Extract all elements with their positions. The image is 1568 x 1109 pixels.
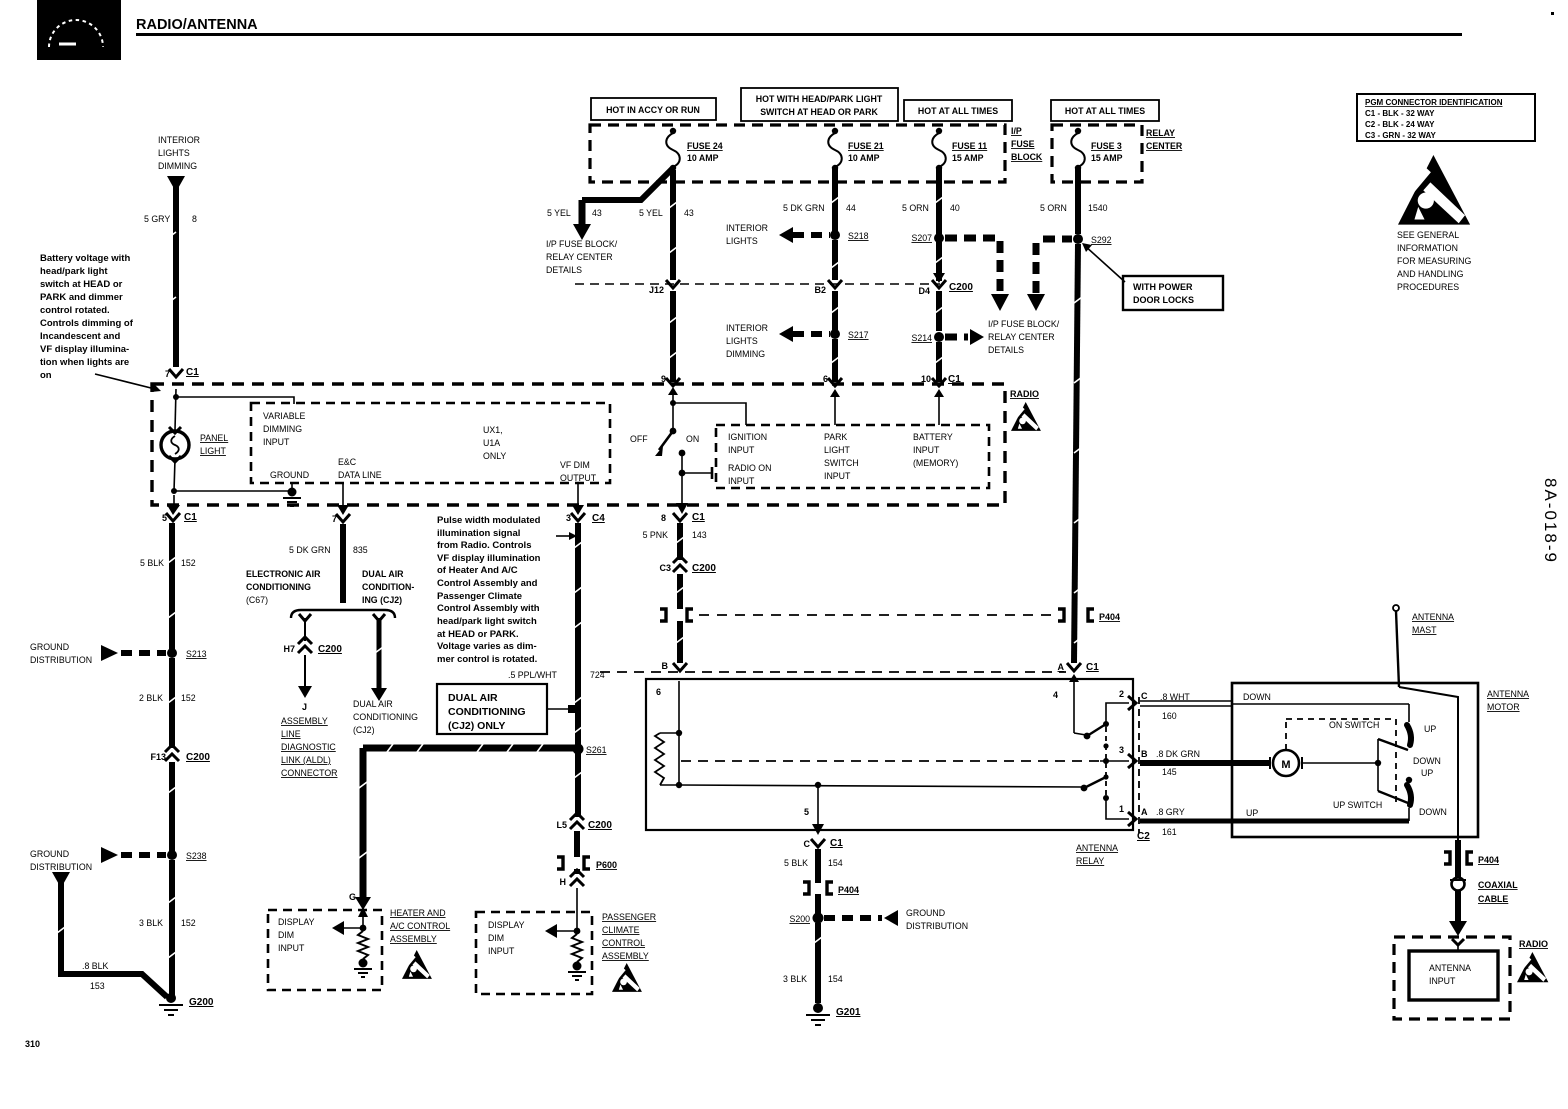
connector P404 right <box>1058 609 1120 622</box>
dual air branch <box>353 614 418 735</box>
svg-text:15 AMP: 15 AMP <box>952 153 984 163</box>
svg-text:INPUT: INPUT <box>488 946 515 956</box>
svg-text:(CJ2): (CJ2) <box>353 725 375 735</box>
svg-text:FUSE: FUSE <box>1011 139 1035 149</box>
svg-text:DUAL AIR: DUAL AIR <box>353 699 393 709</box>
svg-text:835: 835 <box>353 545 368 555</box>
svg-text:3 BLK: 3 BLK <box>139 918 163 928</box>
splice S213 <box>30 642 207 665</box>
svg-text:RADIO ON: RADIO ON <box>728 463 772 473</box>
panel light circuit inside radio <box>173 389 294 430</box>
relay coil contact line (pin3) <box>681 760 1129 762</box>
svg-text:A: A <box>1141 807 1148 817</box>
svg-text:INPUT: INPUT <box>913 445 940 455</box>
svg-text:at HEAD or PARK.: at HEAD or PARK. <box>437 629 519 640</box>
svg-text:(MEMORY): (MEMORY) <box>913 458 958 468</box>
svg-text:LINK (ALDL): LINK (ALDL) <box>281 755 331 765</box>
svg-text:C3: C3 <box>659 563 671 573</box>
svg-text:CENTER: CENTER <box>1146 141 1183 151</box>
svg-text:OFF: OFF <box>630 434 648 444</box>
svg-text:INTERIOR: INTERIOR <box>158 135 200 145</box>
wire 1540 ORN <box>1040 168 1108 234</box>
wire 152 BLK <box>140 523 196 649</box>
svg-text:ANTENNA: ANTENNA <box>1487 689 1529 699</box>
svg-text:ELECTRONIC AIR: ELECTRONIC AIR <box>246 569 321 579</box>
svg-text:SWITCH: SWITCH <box>824 458 859 468</box>
svg-text:FUSE 3: FUSE 3 <box>1091 141 1122 151</box>
svg-text:A: A <box>1058 662 1065 672</box>
MIDCOLS <box>246 512 1120 994</box>
svg-text:VF display illumina-: VF display illumina- <box>40 344 129 355</box>
svg-text:Passenger Climate: Passenger Climate <box>437 591 522 602</box>
svg-text:4: 4 <box>1053 690 1058 700</box>
svg-text:C200: C200 <box>318 644 342 655</box>
wire 154 BLK <box>784 849 843 883</box>
relay coil <box>655 681 682 788</box>
svg-text:152: 152 <box>181 558 196 568</box>
svg-text:ON: ON <box>686 434 699 444</box>
motor to switch common <box>1303 739 1381 791</box>
terminal H <box>560 869 585 928</box>
coax path from mast <box>1399 687 1458 848</box>
svg-text:44: 44 <box>846 203 856 213</box>
svg-text:control rotated.: control rotated. <box>40 305 110 316</box>
svg-text:GROUND: GROUND <box>270 470 309 480</box>
svg-text:INPUT: INPUT <box>1429 976 1456 986</box>
wire 1540 down to antenna relay <box>1074 244 1078 663</box>
wire 43 below J12 <box>670 291 676 382</box>
heater display dim input box <box>268 907 382 990</box>
svg-text:RELAY CENTER: RELAY CENTER <box>988 332 1055 342</box>
svg-text:.8 GRY: .8 GRY <box>1156 807 1185 817</box>
svg-text:PARK and dimmer: PARK and dimmer <box>40 292 123 303</box>
battery input arrow <box>934 389 944 425</box>
relay pin5 branch <box>804 782 824 835</box>
interior lights dimming feed <box>158 135 200 192</box>
svg-text:CONDITIONING: CONDITIONING <box>448 706 526 718</box>
svg-text:head/park light: head/park light <box>40 266 108 277</box>
svg-text:SWITCH AT HEAD OR PARK: SWITCH AT HEAD OR PARK <box>760 107 878 117</box>
svg-text:ONLY: ONLY <box>483 451 506 461</box>
splice S207 <box>911 233 1009 311</box>
svg-text:Voltage varies as dim-: Voltage varies as dim- <box>437 641 537 652</box>
relay lower switch <box>679 777 1129 819</box>
svg-text:INFORMATION: INFORMATION <box>1397 243 1458 253</box>
svg-text:8: 8 <box>661 513 666 523</box>
svg-text:of Heater And A/C: of Heater And A/C <box>437 565 518 576</box>
top right speck <box>1551 12 1554 15</box>
svg-text:5 BLK: 5 BLK <box>784 858 808 868</box>
terminal 7 C1 <box>165 367 199 379</box>
splice S200 <box>789 894 968 931</box>
svg-text:15 AMP: 15 AMP <box>1091 153 1123 163</box>
svg-text:C2 - BLK - 24 WAY: C2 - BLK - 24 WAY <box>1365 120 1435 129</box>
svg-text:C1: C1 <box>184 512 197 523</box>
svg-text:CLIMATE: CLIMATE <box>602 925 640 935</box>
svg-text:S292: S292 <box>1091 235 1112 245</box>
svg-text:UX1,: UX1, <box>483 425 503 435</box>
svg-text:G: G <box>349 892 356 902</box>
svg-text:INPUT: INPUT <box>278 943 305 953</box>
svg-text:from Radio. Controls: from Radio. Controls <box>437 540 531 551</box>
connector F13 C200 <box>150 745 210 763</box>
svg-text:DOOR LOCKS: DOOR LOCKS <box>1133 295 1194 305</box>
passenger climate control assembly label <box>602 912 656 992</box>
svg-text:C200: C200 <box>692 563 716 574</box>
ground G200 <box>159 993 214 1015</box>
connector P404 left <box>660 609 693 621</box>
passenger display dim input box <box>476 912 592 994</box>
connector L5 C200 <box>556 753 612 831</box>
ESD handling symbol <box>1397 155 1471 292</box>
splice S217 <box>726 323 869 359</box>
svg-text:head/park light switch: head/park light switch <box>437 616 537 627</box>
terminal A C1 relay <box>1058 662 1100 673</box>
svg-text:DUAL AIR: DUAL AIR <box>448 692 498 704</box>
P404 dashed interconnect <box>699 614 1056 616</box>
svg-text:ANTENNA: ANTENNA <box>1429 963 1471 973</box>
wire 40 below D4 <box>936 291 942 331</box>
wire 44 below S217 <box>832 339 838 382</box>
corner logo <box>37 0 121 60</box>
svg-text:CONDITIONING: CONDITIONING <box>353 712 418 722</box>
fuse 11 <box>932 128 987 171</box>
svg-text:VF DIM: VF DIM <box>560 460 590 470</box>
svg-text:CONNECTOR: CONNECTOR <box>281 768 338 778</box>
svg-text:5 PNK: 5 PNK <box>643 530 669 540</box>
wire 40 ORN <box>902 168 960 234</box>
svg-text:M: M <box>1281 759 1290 771</box>
antenna motor box <box>1232 683 1529 837</box>
svg-text:illumination signal: illumination signal <box>437 528 520 539</box>
svg-text:INPUT: INPUT <box>728 445 755 455</box>
svg-text:H: H <box>560 877 567 887</box>
svg-text:VF display illumination: VF display illumination <box>437 553 541 564</box>
svg-text:WITH POWER: WITH POWER <box>1133 282 1193 292</box>
svg-text:LIGHT: LIGHT <box>200 446 227 456</box>
svg-text:A/C CONTROL: A/C CONTROL <box>390 921 450 931</box>
svg-text:VARIABLE: VARIABLE <box>263 411 306 421</box>
svg-text:on: on <box>40 370 52 381</box>
svg-text:DISTRIBUTION: DISTRIBUTION <box>906 921 968 931</box>
antenna relay box <box>646 679 1133 866</box>
svg-text:HOT AT ALL TIMES: HOT AT ALL TIMES <box>1065 106 1145 116</box>
svg-text:S200: S200 <box>789 914 810 924</box>
svg-text:tion when lights are: tion when lights are <box>40 357 129 368</box>
dual air conditioning only box <box>437 684 575 734</box>
svg-text:F13: F13 <box>150 752 166 762</box>
E&C data line arrow <box>337 483 349 515</box>
svg-text:RADIO: RADIO <box>1519 939 1548 949</box>
svg-text:2: 2 <box>1119 689 1124 699</box>
wire 143 PNK <box>677 523 683 560</box>
svg-text:DISTRIBUTION: DISTRIBUTION <box>30 862 92 872</box>
svg-text:DETAILS: DETAILS <box>546 265 582 275</box>
up switch contacts <box>1378 768 1447 821</box>
heater a/c control assembly label <box>390 908 450 979</box>
coax to P404 <box>1444 840 1499 877</box>
svg-text:43: 43 <box>684 208 694 218</box>
splice S218 <box>726 223 869 246</box>
svg-text:ASSEMBLY: ASSEMBLY <box>602 951 649 961</box>
svg-text:G200: G200 <box>189 997 214 1008</box>
relay connector C2 dashed face <box>1137 697 1150 842</box>
svg-text:C2: C2 <box>1137 831 1150 842</box>
panel light ground wire <box>171 459 292 494</box>
svg-text:C200: C200 <box>186 752 210 763</box>
svg-text:UP: UP <box>1421 768 1433 778</box>
wire 152 BLK 3 <box>169 762 175 851</box>
svg-text:LINE: LINE <box>281 729 301 739</box>
terminal J12 <box>649 280 680 295</box>
battery voltage note <box>40 253 161 392</box>
svg-text:CABLE: CABLE <box>1478 894 1508 904</box>
svg-text:PGM CONNECTOR IDENTIFICATION: PGM CONNECTOR IDENTIFICATION <box>1365 98 1503 107</box>
svg-text:6: 6 <box>656 687 661 697</box>
svg-text:5 ORN: 5 ORN <box>1040 203 1067 213</box>
fuse 3 <box>1071 128 1122 171</box>
relay center dashed box <box>1052 125 1183 182</box>
svg-text:DOWN: DOWN <box>1243 692 1271 702</box>
svg-text:5 GRY: 5 GRY <box>144 214 170 224</box>
svg-text:IGNITION: IGNITION <box>728 432 767 442</box>
svg-text:C4: C4 <box>592 513 605 524</box>
on switch contacts <box>1232 704 1441 766</box>
svg-text:Control Assembly and: Control Assembly and <box>437 578 538 589</box>
svg-text:H7: H7 <box>283 644 295 654</box>
svg-text:switch at HEAD or: switch at HEAD or <box>40 279 123 290</box>
svg-text:INTERIOR: INTERIOR <box>726 323 768 333</box>
connector C200 dashed line (J12/B2/D4) <box>575 282 973 293</box>
svg-text:DIAGNOSTIC: DIAGNOSTIC <box>281 742 336 752</box>
svg-text:ON SWITCH: ON SWITCH <box>1329 720 1379 730</box>
svg-text:FOR MEASURING: FOR MEASURING <box>1397 256 1471 266</box>
svg-text:E&C: E&C <box>338 457 357 467</box>
svg-text:B: B <box>662 661 669 671</box>
I/P fuse block dashed box <box>590 125 1043 182</box>
relay upper switch <box>1084 703 1129 739</box>
antenna mast <box>1393 605 1454 687</box>
svg-text:HOT AT ALL TIMES: HOT AT ALL TIMES <box>918 106 998 116</box>
splice S238 <box>30 847 207 872</box>
wire 43 YEL main <box>639 170 694 280</box>
connector C3 C200 <box>659 556 716 574</box>
split bar <box>291 610 395 618</box>
splice S292 <box>1027 234 1112 311</box>
svg-text:FUSE 21: FUSE 21 <box>848 141 884 151</box>
svg-text:INPUT: INPUT <box>824 471 851 481</box>
feed box HOT AT ALL TIMES (I/P) <box>904 100 1012 121</box>
svg-text:5 ORN: 5 ORN <box>902 203 929 213</box>
inner dashed box dimming inputs <box>251 403 610 483</box>
svg-text:40: 40 <box>950 203 960 213</box>
svg-text:UP: UP <box>1246 808 1258 818</box>
ALDL branch <box>281 614 342 778</box>
svg-text:ANTENNA: ANTENNA <box>1412 612 1454 622</box>
svg-text:FUSE 11: FUSE 11 <box>952 141 987 151</box>
terminal 7 C4 (E&C) <box>332 514 350 524</box>
with power door locks callout <box>1082 243 1223 310</box>
svg-text:SEE GENERAL: SEE GENERAL <box>1397 230 1459 240</box>
terminal 9 radio <box>661 374 680 386</box>
panel light lamp <box>161 427 228 462</box>
svg-text:161: 161 <box>1162 827 1177 837</box>
svg-text:C1: C1 <box>186 367 199 378</box>
svg-text:C3 - GRN - 32 WAY: C3 - GRN - 32 WAY <box>1365 131 1436 140</box>
relay linkage <box>1103 727 1109 801</box>
svg-text:C200: C200 <box>949 282 973 293</box>
svg-text:AND HANDLING: AND HANDLING <box>1397 269 1464 279</box>
svg-text:S213: S213 <box>186 649 207 659</box>
svg-text:COAXIAL: COAXIAL <box>1478 880 1518 890</box>
RADIOBOX <box>152 384 1041 515</box>
svg-text:3: 3 <box>1119 745 1124 755</box>
wire branch to heater display dim <box>349 748 575 910</box>
svg-text:C200: C200 <box>588 820 612 831</box>
svg-text:HEATER AND: HEATER AND <box>390 908 446 918</box>
wire 40 below S214 <box>936 342 942 382</box>
svg-text:DISPLAY: DISPLAY <box>488 920 525 930</box>
wire 145 DK GRN <box>1140 749 1270 777</box>
radio antenna input box <box>1394 937 1548 1019</box>
inner dashed box ignition/park/battery <box>716 425 989 488</box>
connector P600 <box>557 831 617 870</box>
svg-text:5 YEL: 5 YEL <box>547 208 571 218</box>
svg-text:FUSE 24: FUSE 24 <box>687 141 723 151</box>
svg-text:8A-018-9: 8A-018-9 <box>1541 478 1560 564</box>
svg-text:43: 43 <box>592 208 602 218</box>
svg-text:P404: P404 <box>1478 855 1499 865</box>
svg-text:S207: S207 <box>911 233 932 243</box>
svg-text:CONDITIONING: CONDITIONING <box>246 582 311 592</box>
svg-text:MOTOR: MOTOR <box>1487 702 1520 712</box>
svg-text:143: 143 <box>692 530 707 540</box>
svg-text:Controls dimming of: Controls dimming of <box>40 318 134 329</box>
svg-text:10 AMP: 10 AMP <box>848 153 880 163</box>
svg-text:.8 BLK: .8 BLK <box>82 961 109 971</box>
svg-text:I/P FUSE BLOCK/: I/P FUSE BLOCK/ <box>546 239 618 249</box>
svg-text:HOT IN ACCY OR RUN: HOT IN ACCY OR RUN <box>606 105 700 115</box>
radio internal ground <box>283 483 301 506</box>
svg-text:PARK: PARK <box>824 432 847 442</box>
svg-text:BATTERY: BATTERY <box>913 432 953 442</box>
LEFTCOL <box>30 135 301 1015</box>
svg-text:OUTPUT: OUTPUT <box>560 473 597 483</box>
svg-text:RADIO/ANTENNA: RADIO/ANTENNA <box>136 17 258 33</box>
svg-text:310: 310 <box>25 1039 40 1049</box>
motor linkage dashed <box>1286 719 1396 810</box>
svg-text:INPUT: INPUT <box>263 437 290 447</box>
svg-text:PASSENGER: PASSENGER <box>602 912 656 922</box>
VF dim output arrow <box>572 483 584 515</box>
svg-text:DATA LINE: DATA LINE <box>338 470 382 480</box>
svg-text:145: 145 <box>1162 767 1177 777</box>
wire 154 BLK to G201 <box>783 923 843 1003</box>
svg-text:CONDITION-: CONDITION- <box>362 582 414 592</box>
svg-text:B: B <box>1141 749 1148 759</box>
connector P404 ground <box>803 882 859 895</box>
fuse 24 <box>666 128 723 171</box>
svg-text:INTERIOR: INTERIOR <box>726 223 768 233</box>
svg-text:RELAY CENTER: RELAY CENTER <box>546 252 613 262</box>
wire 44 below S218 <box>832 240 838 280</box>
svg-text:DIM: DIM <box>278 930 294 940</box>
svg-text:(CJ2) ONLY: (CJ2) ONLY <box>448 720 505 732</box>
svg-text:INPUT: INPUT <box>728 476 755 486</box>
svg-text:LIGHTS: LIGHTS <box>158 148 190 158</box>
svg-text:152: 152 <box>181 918 196 928</box>
svg-text:DIMMING: DIMMING <box>726 349 765 359</box>
svg-text:Control Assembly with: Control Assembly with <box>437 603 540 614</box>
svg-text:3: 3 <box>566 513 571 523</box>
svg-text:DUAL AIR: DUAL AIR <box>362 569 404 579</box>
coax connector <box>1450 878 1518 905</box>
wire 44 DK GRN <box>783 168 856 232</box>
svg-text:UP: UP <box>1424 724 1436 734</box>
terminal 6 radio <box>823 374 842 386</box>
svg-text:154: 154 <box>828 858 843 868</box>
wire: fuse 24 branch to I/P fuse block details <box>546 168 673 275</box>
svg-text:I/P FUSE BLOCK/: I/P FUSE BLOCK/ <box>988 319 1060 329</box>
svg-text:5 DK GRN: 5 DK GRN <box>289 545 331 555</box>
svg-text:C: C <box>804 839 811 849</box>
svg-text:1: 1 <box>1119 804 1124 814</box>
FEEDS <box>546 88 1223 663</box>
svg-text:5 BLK: 5 BLK <box>140 558 164 568</box>
svg-text:C1: C1 <box>830 838 843 849</box>
park light input arrow <box>830 389 840 425</box>
wire 44 below B2 <box>832 291 838 330</box>
svg-text:C1: C1 <box>692 512 705 523</box>
svg-text:10 AMP: 10 AMP <box>687 153 719 163</box>
svg-text:BLOCK: BLOCK <box>1011 152 1043 162</box>
svg-text:PROCEDURES: PROCEDURES <box>1397 282 1459 292</box>
splice S214 <box>911 319 1059 355</box>
svg-text:UP SWITCH: UP SWITCH <box>1333 800 1382 810</box>
svg-text:ASSEMBLY: ASSEMBLY <box>390 934 437 944</box>
svg-text:.8 DK GRN: .8 DK GRN <box>1156 749 1200 759</box>
terminal 8 C1 (radio pin 8) <box>643 512 707 540</box>
feed box HOT WITH HEAD/PARK LIGHT SWITCH <box>741 88 898 121</box>
svg-text:P404: P404 <box>838 885 859 895</box>
svg-text:C1 - BLK - 32 WAY: C1 - BLK - 32 WAY <box>1365 109 1435 118</box>
ground distribution branch wire <box>52 872 167 997</box>
wire 161 GRY <box>1140 807 1409 837</box>
svg-text:154: 154 <box>828 974 843 984</box>
svg-text:S214: S214 <box>911 333 932 343</box>
svg-text:5: 5 <box>804 807 809 817</box>
svg-text:S238: S238 <box>186 851 207 861</box>
terminal C C1 (relay ground) <box>804 838 844 849</box>
svg-text:MAST: MAST <box>1412 625 1437 635</box>
svg-text:152: 152 <box>181 693 196 703</box>
svg-text:GROUND: GROUND <box>30 642 69 652</box>
svg-text:DOWN: DOWN <box>1413 756 1441 766</box>
svg-text:LIGHT: LIGHT <box>824 445 851 455</box>
svg-text:S261: S261 <box>586 745 607 755</box>
svg-text:ING (CJ2): ING (CJ2) <box>362 595 402 605</box>
svg-text:Pulse width modulated: Pulse width modulated <box>437 515 541 526</box>
relay pin chevrons <box>1128 691 1148 826</box>
feed box HOT IN ACCY OR RUN <box>591 98 716 120</box>
svg-text:5 YEL: 5 YEL <box>639 208 663 218</box>
svg-text:RADIO: RADIO <box>1010 389 1039 399</box>
svg-text:HOT WITH HEAD/PARK LIGHT: HOT WITH HEAD/PARK LIGHT <box>756 94 883 104</box>
svg-text:LIGHTS: LIGHTS <box>726 336 758 346</box>
svg-text:S217: S217 <box>848 330 869 340</box>
svg-text:U1A: U1A <box>483 438 500 448</box>
svg-text:B2: B2 <box>814 285 826 295</box>
